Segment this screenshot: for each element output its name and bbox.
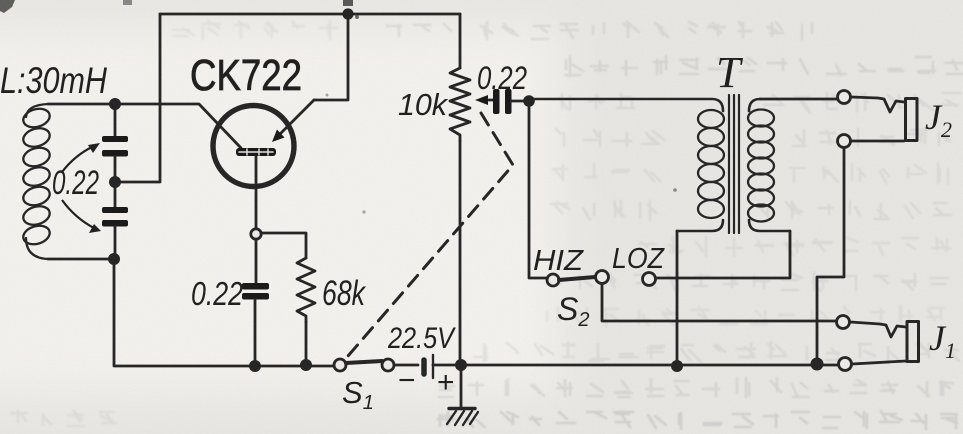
wire node D to transformer primary top — [529, 99, 723, 111]
capacitor C1 0.22 — [102, 136, 128, 157]
switch S2 LOZ terminal — [643, 273, 656, 286]
node R2 ground — [300, 359, 312, 371]
wire node D down to HIZ — [529, 101, 547, 278]
switch S2 arm — [559, 277, 595, 280]
node B: capacitor midpoint — [109, 176, 121, 188]
switch S1 left terminal — [334, 359, 346, 371]
wire emitter lead — [115, 104, 241, 148]
ground earth symbol — [447, 365, 478, 425]
wire secondary bottom to LOZ — [656, 231, 790, 278]
transformer T primary winding — [677, 110, 724, 231]
wire coil bottom lead — [48, 258, 114, 261]
wire feedback tap: capacitor midpoint up to top bus — [116, 14, 160, 182]
jack J2 body — [906, 99, 918, 141]
wire top bus (collector supply) — [160, 13, 460, 16]
switch S1 right terminal — [382, 359, 394, 371]
arrow from 0.22 label to C1 — [62, 143, 101, 233]
capacitor C3 0.22 — [242, 283, 269, 300]
dashed gang link pot R1 to switch S1 — [348, 113, 513, 356]
wire base to R2 — [261, 233, 306, 258]
node C: C2 bottom / coil bottom — [108, 253, 120, 265]
node A: coil top / C1 / emitter — [109, 98, 121, 110]
wire C1-C2 link — [114, 156, 117, 207]
jack J1 sleeve wire — [852, 361, 906, 364]
capacitor C4 0.22 coupling — [493, 89, 512, 114]
node C3 ground — [249, 360, 261, 372]
wire S1 to battery — [394, 364, 418, 367]
capacitor C2 0.22 — [102, 207, 128, 227]
jack J2 tip terminal — [838, 91, 851, 104]
wire S2 pole to J1 tip — [602, 284, 836, 321]
jack J1 sleeve terminal — [839, 358, 852, 371]
resistor R2 68k — [297, 258, 315, 322]
wire J2 sleeve down to ground bus — [817, 148, 844, 364]
transformer core — [729, 95, 739, 233]
node battery / pot / earth junction — [455, 359, 467, 371]
inductor L 30mH — [21, 104, 52, 259]
wire base to C3 — [255, 239, 258, 283]
transformer T secondary winding — [748, 99, 790, 231]
battery B1 22.5V — [424, 355, 461, 378]
transistor Q1 CK722 — [213, 100, 314, 229]
jack J2 tip spring wire — [851, 97, 904, 112]
node primary ground — [671, 360, 683, 372]
jack J2 sleeve terminal — [838, 135, 851, 148]
base lead — [255, 156, 258, 229]
switch S2 pole terminal — [596, 271, 609, 284]
arrow from 0.22 label to C2 — [62, 200, 94, 228]
wire C3 to ground bus — [254, 299, 257, 366]
switch S2 HIZ terminal — [547, 274, 559, 286]
wire C2 bottom lead — [114, 226, 117, 259]
wire C1 top lead — [114, 104, 117, 136]
jack J2 sleeve wire — [851, 140, 904, 143]
wire collector to top bus — [314, 14, 348, 100]
node D: C4 out — [523, 95, 535, 107]
switch S1 arm — [346, 361, 382, 363]
wire R2 to ground bus — [305, 322, 308, 365]
node junction top bus / collector — [342, 8, 353, 19]
wire primary bottom to ground bus — [676, 231, 679, 366]
wire C4 to node D — [511, 100, 529, 103]
wire bottom-left down to ground bus — [114, 259, 334, 366]
wire coil top to node A — [48, 103, 115, 106]
jack J1 body — [907, 322, 919, 362]
wire secondary top to J2 tip — [760, 98, 837, 101]
node J2 ground — [811, 358, 824, 371]
wire ground bus right segment — [461, 364, 838, 367]
node base terminal — [251, 229, 261, 239]
potentiometer R1 10k — [450, 14, 495, 365]
jack J1 tip spring wire — [850, 322, 906, 337]
jack J1 tip terminal — [837, 316, 850, 329]
collector lead with arrow — [277, 100, 314, 137]
scan specks — [0, 0, 15, 13]
wiper arrow — [487, 99, 495, 102]
